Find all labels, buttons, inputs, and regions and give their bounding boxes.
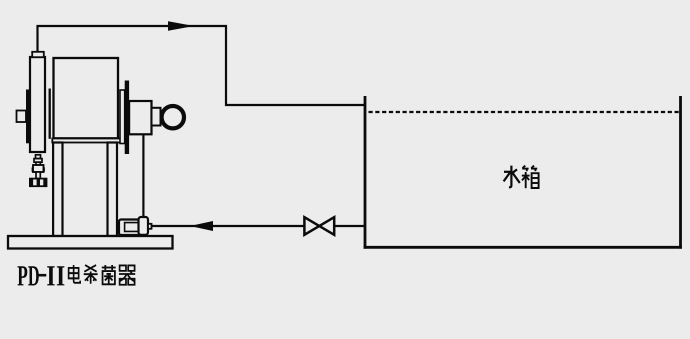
return pipe (tank outlet to pump), left of valve <box>151 225 306 227</box>
drain fitting T-bar <box>30 179 47 187</box>
label PD-II (serif condensed) <box>17 266 64 285</box>
water tank right wall <box>679 96 682 249</box>
sterilizer main body <box>54 58 119 138</box>
valve V1 (gate valve bowtie) <box>304 217 334 235</box>
left tab <box>17 111 27 123</box>
drain fitting stem 3 <box>36 172 40 179</box>
supply pipe (sterilizer outlet to tank inlet) <box>38 26 365 105</box>
right flange plate A (outlined) <box>120 90 125 144</box>
water level (dashed line) <box>369 111 680 113</box>
base plate <box>8 236 173 249</box>
drain fitting collar <box>34 159 42 163</box>
motor box <box>129 101 151 134</box>
water tank left wall <box>364 96 367 249</box>
handwheel neck <box>152 108 161 126</box>
left plate (solid) <box>26 90 29 144</box>
label 水 (water) <box>504 166 520 188</box>
water tank bottom <box>364 246 682 249</box>
pump body <box>119 220 140 236</box>
pump nozzle <box>148 224 152 229</box>
right leg <box>108 143 118 237</box>
label 电 (electric) <box>69 265 81 283</box>
label 菌 (bacteria) <box>102 265 116 284</box>
return pipe, right of valve <box>334 225 365 227</box>
handwheel circle <box>162 106 184 128</box>
label 箱 (box) <box>522 166 539 189</box>
left flange bar <box>49 89 51 139</box>
flow arrow A2 (to sterilizer) <box>190 221 213 231</box>
drain fitting bulge <box>33 165 44 172</box>
pump shaft line <box>142 135 144 219</box>
drain fitting stem 1 <box>36 155 41 159</box>
label 杀 (kill) <box>84 265 98 284</box>
sterilizer body bottom lip <box>52 139 121 143</box>
right flange plate B (solid) <box>125 81 129 155</box>
label 器 (device) <box>119 265 135 284</box>
dosing cylinder <box>30 57 45 152</box>
dosing cylinder cap <box>32 52 44 57</box>
flow arrow A1 (to tank) <box>168 21 194 31</box>
pump inner line <box>125 223 139 232</box>
pump end cap <box>139 217 149 235</box>
left leg <box>53 143 62 237</box>
drain fitting stem 2 <box>36 162 40 165</box>
